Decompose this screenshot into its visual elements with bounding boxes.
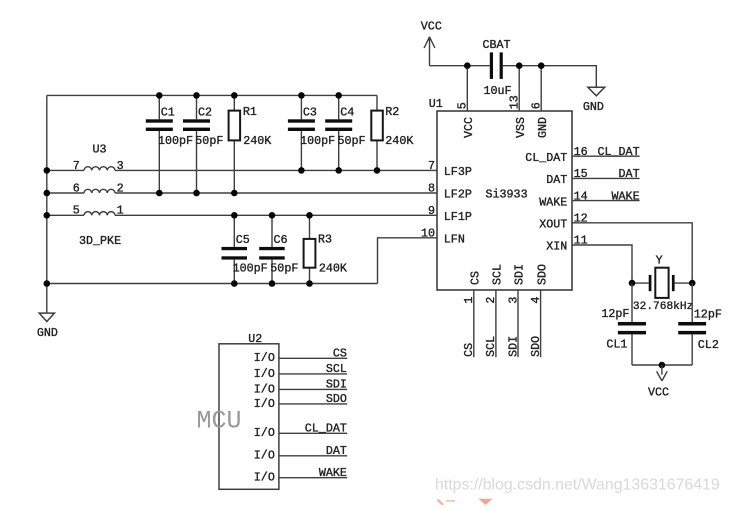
svg-text:SDI: SDI: [513, 264, 527, 285]
svg-text:100pF: 100pF: [158, 134, 193, 148]
capacitor C1: [146, 95, 193, 193]
svg-text:CS: CS: [462, 343, 476, 357]
svg-text:WAKE: WAKE: [612, 189, 640, 203]
capacitor C6: [259, 215, 298, 283]
pin 11 XIN wire: [546, 234, 632, 283]
wire pin6: [540, 66, 542, 111]
svg-text:CL_DAT: CL_DAT: [305, 422, 347, 436]
svg-text:R2: R2: [385, 105, 399, 119]
svg-text:DAT: DAT: [619, 167, 640, 181]
pin 4 SDO bottom: [529, 264, 549, 357]
svg-text:CL2: CL2: [698, 338, 719, 352]
svg-text:240K: 240K: [385, 134, 413, 148]
junction dots vcc rail: [464, 62, 545, 69]
inductor U3 coil 6-2: [84, 189, 115, 193]
svg-text:C2: C2: [198, 106, 212, 120]
svg-text:3D_PKE: 3D_PKE: [79, 234, 121, 248]
pin label LF1P: [428, 204, 472, 224]
pin 2 SCL bottom: [484, 264, 504, 357]
svg-text:3: 3: [506, 297, 520, 304]
svg-text:CS: CS: [333, 347, 347, 361]
svg-text:CBAT: CBAT: [483, 38, 511, 52]
svg-text:R1: R1: [243, 105, 257, 119]
svg-text:Si3933: Si3933: [486, 188, 528, 202]
capacitor C3: [288, 95, 335, 170]
capacitor CL2: [678, 283, 722, 365]
svg-text:32.768kHz: 32.768kHz: [633, 301, 693, 313]
pin 16 CL_DAT: [525, 145, 639, 165]
wire crystal bottom: [632, 364, 692, 366]
svg-text:VCC: VCC: [462, 117, 476, 138]
svg-text:2: 2: [117, 181, 124, 195]
junction dots line5: [231, 212, 313, 219]
svg-text:SCL: SCL: [491, 264, 505, 285]
svg-text:CL_DAT: CL_DAT: [525, 151, 567, 165]
svg-text:50pF: 50pF: [270, 262, 298, 276]
svg-text:U3: U3: [93, 142, 107, 156]
svg-text:R3: R3: [318, 232, 332, 246]
svg-text:9: 9: [428, 204, 435, 218]
inductor U3 coil 7-3: [84, 167, 115, 171]
svg-text:12pF: 12pF: [601, 307, 629, 321]
svg-text:MCU: MCU: [197, 407, 242, 436]
pin label LF3P: [428, 159, 472, 179]
watermark logo fragment: [438, 499, 493, 505]
svg-text:C4: C4: [340, 106, 354, 120]
wire top rail: [47, 94, 377, 96]
svg-text:5: 5: [73, 204, 80, 218]
svg-text:LF3P: LF3P: [444, 165, 472, 179]
svg-text:VCC: VCC: [421, 19, 442, 33]
svg-text:CS: CS: [469, 271, 483, 285]
mcu pin WAKE: [254, 466, 347, 485]
svg-text:I/O: I/O: [254, 382, 275, 396]
crystal Y: [632, 253, 693, 313]
wire vcc rail: [430, 66, 597, 88]
svg-text:U2: U2: [248, 332, 262, 346]
junction dot vcc bottom: [659, 362, 666, 369]
svg-text:7: 7: [428, 159, 435, 173]
mcu pin SDO: [254, 392, 347, 411]
svg-text:1: 1: [462, 297, 476, 304]
svg-text:XIN: XIN: [546, 240, 567, 254]
svg-text:I/O: I/O: [254, 426, 275, 440]
svg-text:11: 11: [574, 234, 588, 248]
pin numbers coil 7-3: [73, 159, 124, 173]
svg-text:C3: C3: [303, 106, 317, 120]
resistor R3: [304, 215, 347, 283]
svg-text:U1: U1: [429, 97, 443, 111]
pin 14 WAKE: [539, 189, 639, 209]
capacitor C4: [325, 95, 365, 170]
pin label LF2P: [428, 182, 472, 202]
svg-text:XOUT: XOUT: [539, 218, 567, 232]
svg-text:16: 16: [574, 145, 588, 159]
svg-text:8: 8: [428, 182, 435, 196]
svg-text:CL_DAT: CL_DAT: [598, 145, 640, 159]
ground right: [583, 87, 605, 114]
svg-text:LFN: LFN: [444, 233, 465, 247]
pin 12 XOUT wire: [539, 212, 692, 284]
junction dots crystal: [629, 280, 696, 287]
svg-text:LF1P: LF1P: [444, 210, 472, 224]
svg-text:WAKE: WAKE: [319, 466, 347, 480]
svg-text:240K: 240K: [319, 262, 347, 276]
mcu pin CL_DAT: [254, 422, 347, 441]
pin label LFN: [421, 226, 465, 246]
svg-text:C6: C6: [274, 233, 288, 247]
wire pin5: [466, 66, 468, 111]
pin 3 SDI bottom: [506, 264, 526, 357]
pin 1 CS bottom: [462, 271, 482, 357]
ground left: [37, 313, 58, 340]
svg-text:I/O: I/O: [254, 397, 275, 411]
junction dots top rail: [156, 92, 342, 99]
svg-text:15: 15: [574, 167, 588, 181]
IC U1 Si3933: [429, 97, 572, 290]
svg-text:SDO: SDO: [529, 336, 543, 357]
junction dots left rail: [44, 167, 51, 287]
capacitor C5: [222, 215, 268, 283]
wire line7 LF3P: [47, 169, 437, 171]
resistor R1: [229, 95, 272, 193]
mcu pin SDI: [254, 378, 347, 397]
capacitor C2: [183, 95, 223, 193]
svg-text:7: 7: [73, 159, 80, 173]
svg-text:GND: GND: [583, 100, 604, 114]
svg-text:SCL: SCL: [326, 362, 347, 376]
svg-text:50pF: 50pF: [195, 134, 223, 148]
svg-text:100pF: 100pF: [233, 262, 268, 276]
svg-text:SDI: SDI: [326, 378, 347, 392]
wire line6 LF2P: [47, 192, 437, 194]
resistor R2: [371, 95, 413, 170]
svg-text:GND: GND: [37, 326, 58, 340]
svg-text:VCC: VCC: [648, 386, 669, 400]
svg-text:2: 2: [484, 297, 498, 304]
mcu pin CS: [254, 347, 347, 366]
inductor U3 coil 5-1: [84, 212, 115, 216]
power VCC bottom arrow: [648, 365, 669, 400]
svg-text:13: 13: [507, 95, 521, 109]
svg-text:I/O: I/O: [254, 351, 275, 365]
svg-text:SDO: SDO: [535, 264, 549, 285]
pin numbers coil 5-1: [73, 204, 124, 218]
svg-text:I/O: I/O: [254, 471, 275, 485]
svg-text:https://blog.csdn.net/Wang1363: https://blog.csdn.net/Wang13631676419: [435, 477, 720, 494]
svg-text:50pF: 50pF: [338, 134, 366, 148]
svg-text:WAKE: WAKE: [539, 195, 567, 209]
svg-text:240K: 240K: [243, 134, 271, 148]
svg-text:C1: C1: [161, 106, 175, 120]
svg-text:6: 6: [73, 181, 80, 195]
junction dots line7: [298, 167, 380, 174]
mcu pin DAT: [254, 444, 347, 463]
pin 15 DAT: [546, 167, 639, 187]
svg-text:Y: Y: [656, 253, 663, 267]
capacitor CBAT: [483, 38, 512, 98]
svg-text:I/O: I/O: [254, 367, 275, 381]
svg-text:VSS: VSS: [514, 117, 528, 138]
svg-text:CL1: CL1: [606, 338, 627, 352]
svg-text:12pF: 12pF: [694, 308, 722, 322]
svg-text:14: 14: [574, 189, 588, 203]
svg-text:DAT: DAT: [546, 173, 567, 187]
wire bottom rail: [47, 283, 378, 285]
svg-text:1: 1: [117, 204, 124, 218]
svg-text:100pF: 100pF: [300, 134, 335, 148]
junction dots line6: [156, 190, 238, 197]
wire left vertical rail: [46, 95, 48, 312]
svg-text:5: 5: [455, 102, 469, 109]
svg-text:SCL: SCL: [484, 336, 498, 357]
svg-text:C5: C5: [236, 233, 250, 247]
wire LFN from pin10: [378, 238, 438, 284]
svg-text:I/O: I/O: [254, 449, 275, 463]
svg-text:6: 6: [529, 102, 543, 109]
capacitor CL1: [601, 283, 646, 365]
svg-text:4: 4: [529, 297, 543, 304]
svg-text:12: 12: [574, 212, 588, 226]
mcu pin SCL: [254, 362, 347, 381]
svg-text:10: 10: [421, 226, 435, 240]
wire line5 LF1P: [47, 214, 437, 216]
IC U2 MCU: [197, 332, 279, 489]
junction dots bottom rail: [231, 280, 313, 287]
power VCC top: [421, 19, 442, 65]
svg-text:DAT: DAT: [326, 444, 347, 458]
svg-text:LF2P: LF2P: [444, 188, 472, 202]
svg-text:3: 3: [117, 159, 124, 173]
pin numbers coil 6-2: [73, 181, 124, 195]
svg-text:SDI: SDI: [506, 336, 520, 357]
svg-text:SDO: SDO: [326, 392, 347, 406]
wire pin13: [518, 66, 520, 111]
svg-text:GND: GND: [536, 117, 550, 138]
